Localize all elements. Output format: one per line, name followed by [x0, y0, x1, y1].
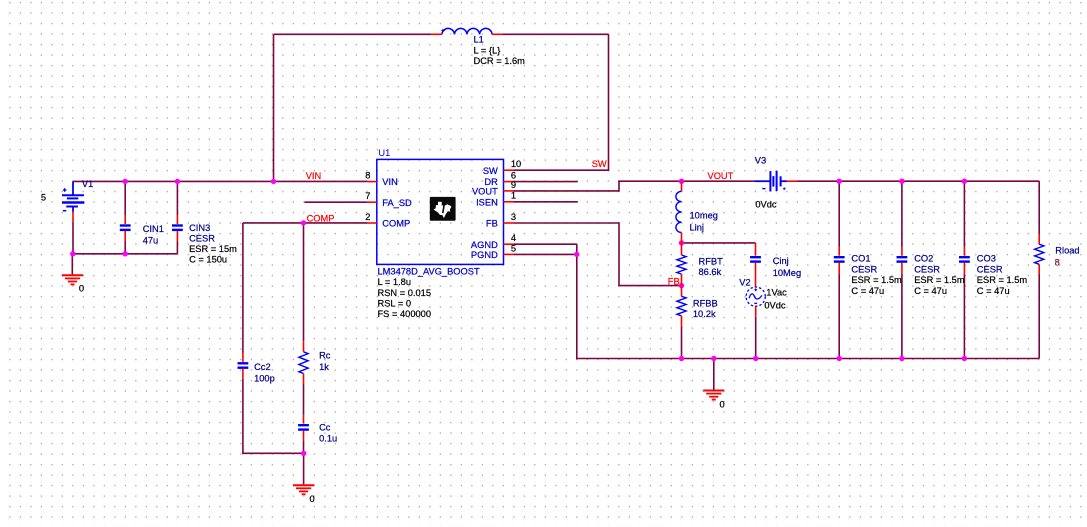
capacitor Cc — [298, 424, 309, 431]
CIN1 value — [143, 235, 159, 245]
Cc2 bottom pin — [242, 369, 244, 379]
svg-text:RFBB: RFBB — [693, 299, 718, 309]
net label COMP — [307, 213, 335, 223]
voltage source V3 — [755, 171, 787, 192]
CO2 bottom pin — [901, 263, 903, 275]
junction Linj-RFBT-Cinj — [679, 240, 684, 245]
RFBB bottom pin — [681, 316, 683, 327]
svg-text:9: 9 — [511, 180, 516, 190]
svg-text:3: 3 — [511, 212, 516, 222]
junction VOUT-CO2 — [899, 179, 904, 184]
svg-text:V3: V3 — [755, 155, 766, 165]
svg-text:RSL = 0: RSL = 0 — [378, 299, 412, 309]
junction Cc-Cc2 bus — [301, 451, 306, 456]
wire CO3 top lead — [963, 181, 965, 246]
net label SW — [592, 159, 607, 169]
wire CIN1 top lead — [124, 181, 126, 215]
wire top-loop left segment — [274, 33, 432, 35]
U1 pin number 2 — [365, 212, 370, 222]
U1 pin number 3 — [511, 212, 516, 222]
CO1 top pin — [838, 247, 840, 256]
wire VOUT pin9 riser — [618, 181, 620, 192]
CO1 property C — [851, 286, 884, 296]
svg-text:VIN: VIN — [382, 177, 398, 187]
Cinj value — [773, 268, 801, 278]
CO3 reference — [977, 254, 996, 264]
svg-text:Linj: Linj — [690, 223, 704, 233]
junction VOUT-Linj — [679, 179, 684, 184]
svg-text:7: 7 — [365, 191, 370, 201]
wire COMP net — [243, 222, 368, 224]
svg-text:5: 5 — [41, 193, 46, 203]
U1 value label — [378, 267, 480, 277]
junction bus-CO2 — [899, 356, 904, 361]
CIN3 property C — [189, 255, 227, 265]
svg-text:10meg: 10meg — [690, 211, 718, 221]
svg-text:RFBT: RFBT — [699, 257, 724, 267]
junction bus-CO3 — [962, 356, 967, 361]
net label FB — [668, 277, 680, 287]
U1 pin number 4 — [511, 233, 516, 243]
junction VOUT-CO1 — [837, 179, 842, 184]
pin 10 SW stub — [504, 169, 515, 171]
capacitor CO1 — [834, 256, 845, 263]
CO1 bottom pin — [838, 263, 840, 275]
V2 value 1Vac — [766, 288, 787, 298]
V3 right pin — [787, 180, 797, 182]
V3 reference — [755, 155, 766, 165]
wire ISEN open — [514, 201, 578, 203]
V1 reference — [82, 179, 93, 189]
svg-text:AGND: AGND — [471, 240, 498, 250]
resistor Rload — [1035, 244, 1044, 264]
Linj reference — [690, 223, 704, 233]
CO1 value CESR — [851, 264, 877, 274]
CO3 property C — [977, 286, 1010, 296]
pin 1 ISEN stub — [504, 201, 515, 203]
pin 8 VIN stub — [368, 181, 377, 183]
Rload reference — [1055, 246, 1079, 256]
svg-text:47u: 47u — [143, 235, 159, 245]
svg-text:U1: U1 — [378, 148, 390, 158]
wire ground stem input — [71, 254, 73, 275]
resistor Rc — [299, 352, 308, 374]
svg-text:86.6k: 86.6k — [699, 267, 722, 277]
svg-text:FB: FB — [486, 219, 498, 229]
wire VIN net — [73, 180, 368, 182]
CO2 value CESR — [914, 264, 940, 274]
CIN3 bottom pin — [176, 231, 178, 242]
svg-text:FB: FB — [668, 277, 680, 287]
wire ground stem comp — [303, 453, 305, 484]
Cinj reference — [773, 256, 789, 266]
wire Rload bottom lead — [1038, 275, 1040, 359]
capacitor CIN1 — [120, 224, 131, 231]
wire CO3 bottom lead — [963, 275, 965, 359]
svg-text:1k: 1k — [319, 362, 329, 372]
svg-text:PGND: PGND — [471, 250, 498, 260]
svg-text:8: 8 — [1055, 258, 1060, 268]
svg-text:1Vac: 1Vac — [766, 288, 787, 298]
svg-text:ESR = 1.5m: ESR = 1.5m — [977, 275, 1028, 285]
svg-text:SW: SW — [483, 166, 498, 176]
pin 9 VOUT stub — [504, 190, 515, 192]
wire top-loop left riser — [273, 34, 275, 181]
Rload top pin — [1038, 234, 1040, 244]
CIN3 property ESR — [189, 244, 237, 254]
wire VOUT rail right — [797, 180, 1039, 182]
U1 pin name ISEN — [476, 197, 498, 207]
wire V1 bottom lead — [72, 222, 74, 255]
Rc bottom pin — [303, 374, 305, 385]
svg-text:DCR = 1.6m: DCR = 1.6m — [474, 56, 526, 66]
Rc top pin — [303, 341, 305, 352]
svg-text:Cc2: Cc2 — [254, 362, 271, 372]
wire AGND-PGND riser — [576, 244, 578, 359]
wire CO2 bottom lead — [901, 275, 903, 359]
net label VOUT — [708, 171, 734, 181]
CO3 top pin — [963, 247, 965, 256]
svg-text:CO2: CO2 — [914, 254, 933, 264]
Cc top pin — [303, 415, 305, 424]
svg-text:V1: V1 — [82, 179, 93, 189]
svg-text:10: 10 — [511, 159, 521, 169]
op-amp U1 LM3478D_AVG_BOOST body — [377, 159, 504, 264]
wire PGND horizontal — [514, 253, 577, 255]
wire ground bus right — [576, 358, 1039, 360]
wire CO2 top lead — [901, 181, 903, 246]
RFBT top pin — [681, 244, 683, 256]
svg-text:0: 0 — [79, 284, 84, 294]
U1 pin number 8 — [365, 171, 370, 181]
svg-text:10Meg: 10Meg — [773, 268, 801, 278]
svg-text:2: 2 — [365, 212, 370, 222]
wire Rload top lead — [1038, 181, 1040, 234]
CO2 property C — [914, 286, 947, 296]
U1 property FS — [378, 309, 432, 319]
Cc2 value — [254, 373, 275, 383]
wire top-loop right segment — [503, 33, 609, 35]
pin 2 COMP stub — [368, 222, 377, 224]
U1 pin number 1 — [511, 191, 516, 201]
svg-text:L = 1.8u: L = 1.8u — [378, 277, 412, 287]
U1 pin number 6 — [511, 171, 516, 181]
svg-text:CIN3: CIN3 — [189, 223, 210, 233]
junction input bus-CIN1 — [123, 251, 128, 256]
U1 pin number 7 — [365, 191, 370, 201]
U1 property RSN — [378, 288, 432, 298]
CO2 property ESR — [914, 275, 965, 285]
wire V2 bottom lead — [755, 317, 757, 359]
V2 bottom pin — [755, 306, 757, 317]
U1 pin number 5 — [511, 243, 516, 253]
wire SW net — [514, 169, 609, 171]
wire Cc2 riser — [242, 223, 244, 353]
RFBB value — [693, 309, 716, 319]
svg-text:C = 47u: C = 47u — [977, 286, 1010, 296]
Rc reference — [319, 351, 331, 361]
svg-text:0.1u: 0.1u — [319, 434, 337, 444]
CO1 reference — [851, 254, 870, 264]
U1 pin name FB — [486, 219, 498, 229]
junction VOUT-CO3 — [962, 179, 967, 184]
junction COMP-Rc — [301, 220, 306, 225]
svg-text:FS = 400000: FS = 400000 — [378, 309, 432, 319]
wire SW riser — [608, 34, 610, 170]
ground 0 input — [62, 275, 83, 284]
CIN1 reference — [143, 224, 164, 234]
svg-text:C = 47u: C = 47u — [851, 286, 884, 296]
pin 7 FA_SD stub — [368, 201, 377, 203]
svg-text:L = {L}: L = {L} — [474, 45, 501, 55]
Cc reference — [319, 422, 331, 432]
svg-text:COMP: COMP — [382, 219, 410, 229]
svg-text:ESR = 15m: ESR = 15m — [189, 244, 237, 254]
wire RFBB bottom lead — [681, 327, 683, 359]
RFBB top pin — [681, 286, 683, 297]
svg-text:CO1: CO1 — [851, 254, 870, 264]
wire input ground bus — [72, 253, 177, 255]
capacitor Cinj — [750, 256, 761, 263]
wire CO1 bottom lead — [838, 275, 840, 359]
svg-text:Cc: Cc — [319, 422, 331, 432]
wire Cc2 lower lead — [242, 379, 244, 454]
svg-text:CESR: CESR — [189, 234, 215, 244]
svg-text:10.2k: 10.2k — [693, 309, 716, 319]
U1 pin name COMP — [382, 219, 410, 229]
L1 right pin — [492, 33, 503, 35]
svg-text:ESR = 1.5m: ESR = 1.5m — [914, 275, 965, 285]
CO3 property ESR — [977, 275, 1028, 285]
junction VIN-CIN1 — [123, 179, 128, 184]
wire Rc riser — [303, 223, 305, 341]
junction bus-RFBB — [679, 356, 684, 361]
CO2 reference — [914, 254, 933, 264]
svg-text:0: 0 — [720, 399, 725, 409]
svg-text:0Vdc: 0Vdc — [764, 300, 786, 310]
wire CIN1 bottom lead — [124, 242, 126, 254]
Linj bottom pin — [681, 233, 683, 244]
wire VOUT pin9 horizontal — [514, 190, 619, 192]
wire VOUT rail left — [618, 180, 755, 182]
U1 property L — [378, 277, 412, 287]
wire Cc lower lead — [303, 440, 305, 453]
svg-text:CO3: CO3 — [977, 254, 996, 264]
wire FB pin3 horizontal — [514, 222, 619, 224]
svg-text:100p: 100p — [254, 373, 275, 383]
Linj top pin — [681, 182, 683, 191]
U1 pin name FA_SD — [382, 198, 412, 208]
inductor Linj — [676, 191, 682, 232]
wire AGND horizontal — [514, 243, 577, 245]
CO3 value CESR — [977, 264, 1003, 274]
RFBT reference — [699, 257, 724, 267]
wire FB riser — [618, 222, 620, 285]
wire CO1 top lead — [838, 181, 840, 246]
RFBT bottom pin — [681, 274, 683, 286]
junction VIN-riser — [271, 179, 276, 184]
pin 6 DR stub — [504, 181, 515, 183]
junction bus-ground — [711, 356, 716, 361]
junction PGND-AGND — [574, 252, 579, 257]
svg-text:Rc: Rc — [319, 351, 331, 361]
junction input bus-V1 — [70, 251, 75, 256]
wire FA_SD stub wire — [305, 201, 368, 203]
U1 pin name VIN — [382, 177, 398, 187]
V2 reference — [739, 277, 750, 287]
svg-text:4: 4 — [511, 233, 516, 243]
wire CIN3 bottom lead — [176, 242, 178, 254]
svg-text:8: 8 — [365, 171, 370, 181]
svg-text:C = 150u: C = 150u — [189, 255, 227, 265]
voltage source V1 — [62, 181, 84, 211]
CO1 property ESR — [851, 275, 902, 285]
wire ground stem output — [713, 359, 715, 391]
CIN3 top pin — [176, 215, 178, 224]
svg-text:CESR: CESR — [851, 264, 877, 274]
Rload value — [1055, 258, 1060, 268]
ground 0 output — [703, 391, 724, 400]
ground 0 output label — [720, 399, 725, 409]
Cinj bottom pin — [755, 263, 757, 288]
U1 reference designator — [378, 148, 390, 158]
L1 left pin — [431, 33, 442, 35]
CIN3 reference — [189, 223, 210, 233]
wire Rc-Cc link — [303, 384, 305, 415]
junction VIN-CIN3 — [175, 179, 180, 184]
L1 property L — [474, 45, 501, 55]
svg-text:C = 47u: C = 47u — [914, 286, 947, 296]
U1 pin name AGND — [471, 240, 498, 250]
capacitor CO3 — [959, 256, 970, 263]
junction bus-V2 — [753, 356, 758, 361]
svg-text:VOUT: VOUT — [472, 187, 498, 197]
svg-text:CESR: CESR — [914, 264, 940, 274]
U1 TI logo — [430, 197, 456, 221]
svg-text:Cinj: Cinj — [773, 256, 789, 266]
CIN3 value CESR — [189, 234, 215, 244]
capacitor CIN3 — [172, 224, 183, 231]
svg-text:V2: V2 — [739, 277, 750, 287]
pin 5 PGND stub — [504, 253, 515, 255]
svg-text:LM3478D_AVG_BOOST: LM3478D_AVG_BOOST — [378, 267, 480, 277]
junction bus-CO1 — [837, 356, 842, 361]
ground 0 comp label — [310, 494, 315, 504]
capacitor Cc2 — [238, 362, 249, 369]
Cc value — [319, 434, 337, 444]
svg-text:VIN: VIN — [306, 171, 322, 181]
Rload bottom pin — [1038, 264, 1040, 274]
Cc bottom pin — [303, 431, 305, 441]
U1 pin name PGND — [471, 250, 498, 260]
capacitor CO2 — [897, 256, 908, 263]
wire CIN3 top lead — [176, 181, 178, 215]
svg-text:COMP: COMP — [307, 213, 335, 223]
net label VIN — [306, 171, 322, 181]
V1 value 5 — [41, 193, 46, 203]
L1 reference — [474, 34, 484, 44]
V1 bottom pin — [72, 212, 74, 223]
svg-text:SW: SW — [592, 159, 607, 169]
resistor RFBT — [677, 255, 686, 274]
U1 pin name DR — [484, 177, 498, 187]
svg-text:FA_SD: FA_SD — [382, 198, 412, 208]
voltage source V2 (AC) — [746, 287, 765, 306]
Linj value — [690, 211, 718, 221]
U1 pin number 10 — [511, 159, 521, 169]
svg-text:0Vdc: 0Vdc — [755, 200, 777, 210]
ground 0 input label — [79, 284, 84, 294]
svg-text:Rload: Rload — [1055, 246, 1079, 256]
svg-text:CIN1: CIN1 — [143, 224, 164, 234]
pin 3 FB stub — [504, 222, 515, 224]
svg-text:L1: L1 — [474, 34, 484, 44]
wire DR open — [514, 181, 578, 183]
RFBT value — [699, 267, 722, 277]
svg-text:0: 0 — [310, 494, 315, 504]
CIN1 top pin — [124, 215, 126, 224]
Cinj top pin — [755, 243, 757, 256]
pin 4 AGND stub — [504, 243, 515, 245]
svg-text:ESR = 1.5m: ESR = 1.5m — [851, 275, 902, 285]
V3 value 0Vdc — [755, 200, 777, 210]
svg-text:ISEN: ISEN — [476, 197, 498, 207]
CIN1 bottom pin — [124, 231, 126, 242]
CO3 bottom pin — [963, 263, 965, 275]
U1 property RSL — [378, 299, 412, 309]
inductor L1 — [441, 28, 493, 34]
ground 0 comp — [293, 485, 314, 494]
V2 value 0Vdc — [764, 300, 786, 310]
wire FB link to divider — [618, 285, 681, 287]
svg-text:CESR: CESR — [977, 264, 1003, 274]
svg-text:1: 1 — [511, 191, 516, 201]
U1 pin name VOUT — [472, 187, 498, 197]
junction FB node — [679, 283, 684, 288]
svg-text:RSN = 0.015: RSN = 0.015 — [378, 288, 432, 298]
wire Cc2-Cc bottom link — [242, 452, 303, 454]
L1 property DCR — [474, 56, 526, 66]
svg-text:5: 5 — [511, 243, 516, 253]
Rc value — [319, 362, 329, 372]
U1 pin name SW — [483, 166, 498, 176]
RFBB reference — [693, 299, 718, 309]
U1 pin number 9 — [511, 180, 516, 190]
resistor RFBB — [677, 296, 686, 316]
CO2 top pin — [901, 247, 903, 256]
svg-text:VOUT: VOUT — [708, 171, 734, 181]
Cc2 top pin — [242, 353, 244, 362]
Cc2 reference — [254, 362, 271, 372]
wire Linj-Cinj link — [682, 242, 756, 244]
